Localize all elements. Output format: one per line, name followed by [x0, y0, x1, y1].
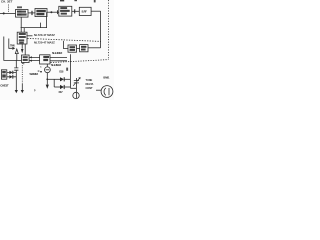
svg-text:NL720-47 MA5Z: NL720-47 MA5Z [34, 33, 55, 37]
node CH SET label top-left [1, 0, 13, 4]
wire U3 to U4 [72, 10, 80, 12]
box U1 label above [17, 6, 22, 8]
wire U5 output right [27, 35, 33, 37]
arrow A1 head [12, 47, 15, 50]
box U2 mixer [35, 9, 47, 17]
node text smudge top edge 2 [94, 0, 96, 2]
box U7 TR39 driver [40, 55, 50, 64]
diode D18 [60, 77, 64, 81]
box R1 [68, 45, 77, 52]
wire to diode D18 [48, 78, 60, 80]
wire to connector J1 [96, 89, 101, 91]
wire dashed vertical from CH SET [8, 5, 10, 13]
wire bus left of diodes [53, 79, 55, 87]
wire feedback loop [21, 12, 47, 27]
wire R1 to R2 [77, 48, 80, 50]
net label below dashed C [51, 64, 62, 67]
wire stub from U2 bottom [40, 23, 42, 28]
svg-text:DELTA: DELTA [86, 82, 94, 86]
label D18 [59, 71, 64, 74]
wire dashed vertical to arrow A8 [21, 63, 23, 84]
svg-text:NL9.4MHZ: NL9.4MHZ [51, 64, 62, 67]
wire vertical drop at right [100, 11, 102, 48]
svg-text:W.63MHZ: W.63MHZ [30, 73, 39, 76]
diode D21 [9, 71, 12, 75]
wire dashed A [27, 38, 100, 41]
svg-text:BN61: BN61 [103, 76, 110, 80]
inductor L3 coil [73, 92, 79, 98]
net label NL720-47 row A [34, 33, 55, 37]
box U8 crystal left bottom [1, 70, 6, 79]
node text smudge top edge [60, 0, 64, 1]
wire stub below U6 [23, 63, 25, 65]
arrow A3 down into U6 [21, 49, 24, 53]
capacitor C4 [14, 68, 18, 70]
arrow A2 up pointing [15, 49, 18, 60]
wire vertical bus x16 [15, 60, 17, 67]
box U3 buffer amp TR38 [59, 6, 72, 16]
wire U8 outputs [7, 72, 10, 76]
label TUNE DELTA CONT [86, 78, 94, 90]
svg-text:CH. 3ET: CH. 3ET [1, 0, 13, 4]
connector J1 inner bar [108, 88, 110, 95]
capacitor C5 coupling bar [57, 10, 59, 14]
wire diodes to bus [13, 72, 16, 76]
box U6 [22, 55, 30, 63]
arrow A7 down [15, 90, 18, 93]
arrow A5 left on lower wire [29, 60, 32, 62]
diode D22 [9, 75, 12, 79]
wire stubs U5 to U6 [22, 44, 25, 55]
box U5 side label [10, 45, 15, 48]
wire U2 to U3 [47, 11, 59, 13]
wire stubs to U5 top [21, 28, 24, 33]
svg-text:CONT: CONT [86, 86, 93, 90]
box R2 [80, 45, 88, 52]
arrow A8 down [21, 90, 24, 93]
text smudge 68 [66, 68, 68, 71]
net label NL9-4MHZ [52, 52, 63, 55]
svg-text:CHE3T: CHE3T [0, 84, 9, 88]
diode D17 [60, 85, 64, 89]
arrow A6 down from Q1 [46, 85, 49, 89]
wire L2 with arrow A1 [9, 39, 13, 49]
node junction dot [50, 11, 52, 13]
label D17 [59, 91, 64, 94]
box U1 oscillator [16, 10, 29, 18]
wire dashed vertical right border [108, 0, 110, 60]
net label NL720-47 row B [34, 41, 55, 45]
node junction dot on input wire [3, 12, 5, 14]
wire R2 to vertical [88, 47, 101, 49]
arrow A4 left on upper wire [29, 56, 32, 58]
label W.63MHZ [30, 73, 39, 76]
wire from dashed A down to R1 [64, 41, 68, 49]
wire U4 output to right [91, 10, 101, 12]
label CHEST below U8 [0, 84, 9, 88]
text smudge left of Q1 [40, 66, 42, 68]
wire U6 to U7 pair [29, 57, 39, 60]
box U4 bandpass filter [79, 7, 91, 15]
capacitor C1 coupling bar [31, 11, 33, 15]
wire U7 outputs [50, 58, 67, 61]
capacitor C3 variable tuning [74, 78, 79, 92]
svg-text:B.P.F: B.P.F [82, 9, 88, 13]
connector J1 inner arc [104, 88, 106, 95]
box U5 AFC [17, 32, 27, 44]
svg-text:NL720-47 MA5Z: NL720-47 MA5Z [34, 41, 55, 45]
wire to diode D17 [54, 86, 60, 88]
label BN above J1 [103, 76, 110, 80]
wire dashed C [51, 60, 109, 63]
node junction dot on Q1 stem [46, 78, 48, 80]
svg-text:NL9-4MHZ: NL9-4MHZ [52, 52, 63, 55]
connector J1 outer circle [101, 86, 113, 98]
svg-text:OSC: OSC [17, 14, 22, 17]
wire stub from U1 bottom [20, 17, 22, 28]
wire U1 to U2 [28, 12, 35, 14]
capacitor C2 coupling bar [74, 9, 76, 13]
node mark small arc dot [34, 88, 36, 92]
wire vertical bus right of diodes [69, 54, 71, 88]
wire L1 left angle [4, 37, 22, 61]
transistor Q1 oscillator symbol [46, 64, 48, 67]
wire input left to U1 [0, 12, 16, 14]
wire bus to tuning cap [70, 87, 76, 89]
svg-text:TUNE: TUNE [86, 78, 93, 82]
